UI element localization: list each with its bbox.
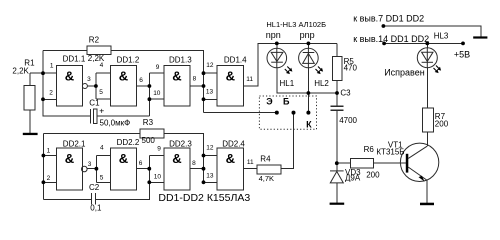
svg-text:&: & bbox=[172, 69, 181, 84]
svg-text:Исправен: Исправен bbox=[384, 68, 425, 78]
gate DD2.3 bbox=[164, 148, 190, 190]
svg-text:+5B: +5B bbox=[454, 49, 470, 59]
junction DD2.4 pin 13 bbox=[202, 180, 206, 184]
wire node to emitter terminal bbox=[204, 111, 277, 113]
svg-text:11: 11 bbox=[247, 159, 254, 166]
wire R2 left bbox=[43, 49, 87, 51]
wire base terminal vertical down to R4 net bbox=[281, 113, 293, 169]
capacitor C2 bbox=[92, 193, 96, 204]
wire R3 left bbox=[43, 133, 140, 135]
svg-text:0,1: 0,1 bbox=[90, 204, 102, 213]
node emitter terminal bbox=[275, 111, 279, 115]
gate DD2.2 bbox=[110, 148, 136, 190]
svg-text:13: 13 bbox=[206, 173, 214, 180]
svg-text:HL2: HL2 bbox=[314, 79, 329, 88]
svg-text:DD2.4: DD2.4 bbox=[222, 140, 245, 149]
svg-text:Д9А: Д9А bbox=[345, 174, 361, 183]
resistor R7 bbox=[422, 108, 433, 132]
svg-text:2,2K: 2,2K bbox=[12, 67, 29, 76]
junction R5 / C3 bbox=[335, 91, 339, 95]
svg-text:HL1: HL1 bbox=[280, 79, 295, 88]
node to pin 14 DD1 DD2 bbox=[382, 42, 386, 46]
junction HL3 anode bbox=[425, 42, 429, 46]
junction DD2.1 out / DD2.2 pins 4,5 bbox=[95, 167, 99, 171]
node +5V terminal bbox=[461, 42, 465, 46]
wire DD2.4 out to R4 bbox=[244, 168, 257, 170]
svg-text:2: 2 bbox=[47, 175, 51, 182]
pin number labels DD2 bbox=[47, 144, 254, 182]
LED HL2 bbox=[299, 48, 319, 68]
svg-text:470: 470 bbox=[344, 63, 358, 72]
gate DD2.1 bbox=[56, 148, 87, 190]
svg-text:&: & bbox=[172, 151, 181, 166]
svg-text:2,2K: 2,2K bbox=[88, 54, 105, 63]
LED HL3 bbox=[417, 48, 437, 68]
svg-text:500: 500 bbox=[142, 136, 156, 145]
svg-text:200: 200 bbox=[435, 119, 449, 128]
junction DD1.3 pin 10 / C1 bbox=[148, 97, 152, 101]
wire pin2 DD2.1 bbox=[43, 181, 56, 183]
svg-text:DD2.1: DD2.1 bbox=[63, 139, 86, 148]
wire DD2.3 out bbox=[190, 168, 203, 170]
junction DD1.3 out pin 8 bbox=[202, 84, 206, 88]
wire R1 bottom to ground bbox=[29, 110, 31, 133]
node to pin 7 DD1 DD2 bbox=[382, 24, 386, 28]
resistor R3 bbox=[140, 129, 164, 138]
wire pin12 DD2.4 bbox=[204, 155, 218, 157]
svg-text:&: & bbox=[65, 69, 74, 84]
wire left rail DD1 inputs to C1 bbox=[43, 50, 90, 116]
svg-text:R3: R3 bbox=[143, 118, 154, 127]
svg-text:к выв.14 DD1 DD2: к выв.14 DD1 DD2 bbox=[353, 34, 429, 44]
test socket dashed box bbox=[259, 96, 316, 129]
junction DD1.1 pin 2 / C1 rail bbox=[41, 97, 45, 101]
wire HL2 bottom bbox=[307, 68, 309, 93]
gate DD1.3 bbox=[164, 66, 190, 107]
svg-text:9: 9 bbox=[156, 64, 160, 71]
junction HL2 / K terminal bbox=[307, 91, 311, 95]
svg-text:DD2.2: DD2.2 bbox=[117, 138, 140, 147]
junction C3 / VD3 / R6 bbox=[335, 161, 339, 165]
junction DD2.4 pin 12 / R3 bbox=[202, 154, 206, 158]
svg-text:R6: R6 bbox=[364, 145, 375, 154]
gate DD1.4 bbox=[217, 66, 244, 107]
svg-text:C2: C2 bbox=[89, 183, 100, 192]
node base terminal bbox=[292, 111, 296, 115]
svg-text:Б: Б bbox=[283, 97, 290, 107]
svg-text:DD1.1: DD1.1 bbox=[63, 54, 86, 63]
wire DD2.2 out bbox=[137, 168, 150, 170]
wire C3 top bbox=[336, 93, 338, 105]
svg-text:9: 9 bbox=[157, 145, 161, 152]
junction HL2 cathode rail bbox=[307, 42, 311, 46]
gate DD2.4 bbox=[217, 148, 244, 190]
pin number labels DD1 bbox=[49, 62, 253, 97]
svg-text:к выв.7 DD1 DD2: к выв.7 DD1 DD2 bbox=[353, 13, 424, 23]
ground top right bbox=[473, 36, 487, 38]
wire HL2 top stub bbox=[307, 43, 309, 48]
svg-text:6: 6 bbox=[139, 160, 143, 167]
svg-text:3: 3 bbox=[87, 76, 91, 83]
node collector terminal bbox=[306, 111, 310, 115]
wire C3 bottom to VD3 node bbox=[336, 110, 338, 163]
svg-text:5: 5 bbox=[99, 89, 103, 96]
svg-text:10: 10 bbox=[154, 173, 162, 180]
gate DD1.2 bbox=[110, 66, 136, 107]
resistor R6 bbox=[351, 159, 374, 169]
wire DD1.4 out up to LED rail bbox=[244, 43, 337, 86]
LED HL1 arrows bbox=[285, 67, 293, 75]
resistor R2 bbox=[87, 46, 111, 55]
wire emitter down to ground bbox=[426, 180, 428, 202]
junction DD2.3 pin 10 / C2 bbox=[147, 180, 151, 184]
junction DD2.2 out pin 6 bbox=[147, 167, 151, 171]
ground VD3 bbox=[330, 203, 345, 205]
wire +5V supply rail bbox=[384, 42, 463, 44]
svg-text:4,7K: 4,7K bbox=[259, 174, 274, 183]
wire pin1 DD1.1 with R1 top bbox=[30, 73, 56, 85]
wire DD2.1 out junction bbox=[87, 156, 110, 183]
svg-text:12: 12 bbox=[206, 145, 214, 152]
capacitor C3 bbox=[330, 106, 343, 110]
LED HL2 arrows bbox=[316, 67, 324, 75]
wire DD2 left rail bbox=[42, 134, 44, 200]
junction R1 / DD1.1 pin 1 bbox=[41, 71, 45, 75]
junction DD2.1 pin 2 bbox=[42, 180, 46, 184]
wire C1 right to junction bbox=[97, 115, 149, 117]
wire VD3 bottom to ground bbox=[336, 183, 338, 203]
svg-text:13: 13 bbox=[206, 89, 214, 96]
transistor VT1 bbox=[400, 143, 438, 181]
wire pin13 DD1.4 bbox=[204, 98, 218, 100]
wire pin13 DD2.4 bbox=[204, 181, 218, 183]
wire R6 to base bbox=[374, 162, 406, 164]
svg-text:К: К bbox=[306, 120, 312, 130]
svg-text:pnp: pnp bbox=[300, 30, 315, 40]
gate DD1.1 bbox=[56, 66, 87, 107]
wire R5 bottom bbox=[336, 81, 338, 94]
svg-text:&: & bbox=[119, 69, 128, 84]
wire R7 bottom to collector bbox=[426, 132, 428, 146]
wire node to R6 bbox=[337, 162, 351, 164]
svg-text:HL1-HL3 АЛ102Б: HL1-HL3 АЛ102Б bbox=[266, 20, 326, 29]
resistor R4 bbox=[257, 165, 281, 174]
svg-text:Э: Э bbox=[266, 97, 273, 107]
svg-text:10: 10 bbox=[153, 90, 161, 97]
LED HL1 bbox=[267, 48, 287, 68]
resistor R5 bbox=[333, 57, 342, 81]
LED HL3 arrows bbox=[434, 66, 442, 74]
wire DD1.2 out junction bbox=[137, 73, 164, 116]
svg-text:6: 6 bbox=[139, 77, 143, 84]
wire HL1 bottom to HL2/R5 wire bbox=[277, 68, 337, 93]
svg-text:npn: npn bbox=[266, 30, 281, 40]
resistor R1 bbox=[24, 86, 35, 111]
svg-text:&: & bbox=[226, 69, 235, 84]
svg-text:R4: R4 bbox=[260, 155, 271, 164]
junction DD2.3 out pin 8 bbox=[202, 167, 206, 171]
svg-text:4: 4 bbox=[100, 144, 104, 151]
svg-text:DD1.4: DD1.4 bbox=[224, 55, 247, 64]
wire HL1 top stub bbox=[276, 43, 278, 48]
ground R1 bbox=[23, 133, 38, 135]
wire VD3 top bbox=[336, 163, 338, 170]
svg-text:C3: C3 bbox=[340, 88, 351, 97]
wire R2 right rail to DD1.4 inputs bbox=[111, 50, 204, 112]
junction HL1 anode rail bbox=[275, 42, 279, 46]
svg-text:DD1.2: DD1.2 bbox=[117, 56, 140, 65]
svg-text:1: 1 bbox=[47, 148, 51, 155]
svg-text:DD2.3: DD2.3 bbox=[169, 140, 192, 149]
wire pin1 DD2.1 bbox=[43, 155, 56, 157]
svg-text:5: 5 bbox=[100, 175, 104, 182]
svg-text:8: 8 bbox=[193, 76, 197, 83]
svg-text:&: & bbox=[226, 151, 235, 166]
junction DD2.1 pin 1 bbox=[42, 154, 46, 158]
wire R5 top bbox=[336, 43, 338, 56]
junction DD1.2 out pin 6 bbox=[148, 84, 152, 88]
ground VT1 emitter bbox=[420, 203, 434, 206]
wire R3 right down to DD2.4 inputs bbox=[164, 134, 204, 183]
svg-text:11: 11 bbox=[246, 76, 253, 83]
svg-text:50,0мкФ: 50,0мкФ bbox=[100, 119, 131, 128]
junction DD1.4 pin 12 / R2 bbox=[202, 71, 206, 75]
wire HL3 top stub bbox=[426, 43, 428, 47]
wire to pin7 gnd rail top right bbox=[383, 26, 480, 36]
wire DD1.3 out bbox=[190, 85, 203, 87]
svg-text:DD1.3: DD1.3 bbox=[169, 56, 192, 65]
svg-text:DD1-DD2 К155ЛА3: DD1-DD2 К155ЛА3 bbox=[158, 192, 250, 204]
diode VD3 bbox=[330, 171, 344, 183]
svg-text:1: 1 bbox=[50, 63, 54, 70]
wire pin12 DD1.4 bbox=[204, 72, 218, 74]
svg-text:R2: R2 bbox=[89, 35, 100, 44]
junction DD1.4 pin 13 bbox=[202, 97, 206, 101]
svg-text:4700: 4700 bbox=[339, 116, 357, 125]
svg-text:8: 8 bbox=[192, 160, 196, 167]
wire HL3 bottom to R7 bbox=[426, 68, 428, 108]
wire DD1.1 out to pins 4,5 bbox=[87, 73, 110, 99]
svg-text:200: 200 bbox=[366, 171, 380, 180]
wire C2 left bbox=[43, 199, 91, 201]
wire pin2 DD1.1 bbox=[43, 98, 56, 100]
svg-text:КТ315Б: КТ315Б bbox=[376, 147, 404, 156]
svg-text:12: 12 bbox=[206, 62, 214, 69]
capacitor C1 bbox=[90, 109, 92, 124]
svg-text:HL3: HL3 bbox=[434, 32, 449, 41]
svg-text:&: & bbox=[65, 151, 74, 166]
svg-text:&: & bbox=[119, 151, 128, 166]
junction DD1.1 out / DD1.2 pins 4,5 bbox=[94, 84, 98, 88]
wire collector terminal up bbox=[307, 93, 309, 113]
value and ref labels bbox=[12, 35, 470, 212]
wire C2 right to DD2.2 out junction bbox=[96, 156, 164, 200]
svg-text:2: 2 bbox=[49, 90, 53, 97]
svg-text:3: 3 bbox=[88, 161, 92, 168]
svg-text:+: + bbox=[99, 106, 104, 116]
